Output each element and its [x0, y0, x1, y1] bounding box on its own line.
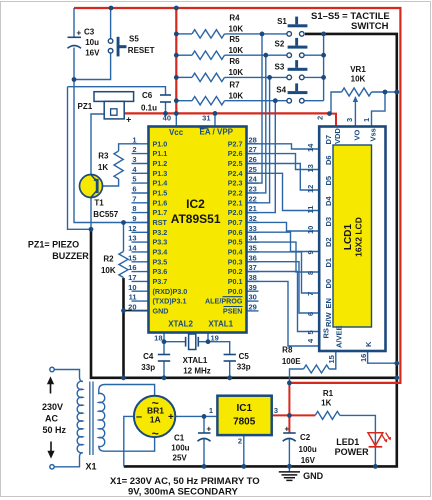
svg-text:P2.7: P2.7	[228, 139, 243, 148]
svg-text:POWER: POWER	[335, 447, 370, 457]
svg-text:AT89S51: AT89S51	[171, 212, 221, 226]
svg-text:S4: S4	[276, 85, 286, 94]
svg-text:D7: D7	[324, 135, 333, 145]
svg-text:P1.2: P1.2	[153, 159, 168, 168]
svg-text:14: 14	[128, 243, 137, 252]
svg-text:15: 15	[128, 253, 136, 262]
svg-text:100E: 100E	[282, 357, 301, 366]
svg-text:37: 37	[249, 263, 257, 272]
svg-text:P0.6: P0.6	[228, 228, 243, 237]
svg-text:10: 10	[306, 226, 315, 234]
svg-text:R7: R7	[229, 80, 240, 89]
svg-text:P1.0: P1.0	[153, 139, 168, 148]
svg-text:R3: R3	[98, 152, 109, 161]
svg-text:(TXD)P3.1: (TXD)P3.1	[153, 297, 187, 306]
svg-text:23: 23	[249, 184, 257, 193]
svg-text:100u: 100u	[171, 444, 189, 453]
svg-text:100u: 100u	[299, 445, 317, 454]
svg-text:2: 2	[238, 437, 242, 446]
svg-text:D6: D6	[324, 155, 333, 165]
svg-text:16: 16	[128, 263, 136, 272]
svg-text:C6: C6	[142, 91, 153, 100]
svg-text:1K: 1K	[98, 163, 108, 172]
svg-text:11: 11	[129, 293, 137, 302]
svg-text:X1: X1	[86, 462, 97, 472]
svg-text:P0.4: P0.4	[228, 248, 243, 257]
svg-text:BC557: BC557	[93, 210, 118, 219]
svg-text:20: 20	[128, 302, 136, 311]
svg-text:5: 5	[132, 175, 136, 184]
svg-text:1: 1	[132, 135, 136, 144]
svg-text:XTAL1: XTAL1	[208, 320, 233, 329]
svg-text:~: ~	[152, 427, 159, 441]
svg-text:C3: C3	[84, 28, 95, 37]
svg-text:16V: 16V	[301, 456, 316, 465]
svg-text:0.1u: 0.1u	[141, 104, 157, 113]
svg-text:P2.6: P2.6	[228, 149, 243, 158]
svg-text:P1.4: P1.4	[153, 179, 168, 188]
svg-text:10K: 10K	[228, 46, 243, 55]
svg-text:+: +	[285, 425, 290, 434]
svg-text:1: 1	[362, 118, 371, 122]
svg-text:R1: R1	[323, 389, 334, 398]
svg-text:5: 5	[306, 330, 315, 334]
svg-text:VDD: VDD	[333, 128, 342, 144]
svg-text:C4: C4	[143, 352, 154, 361]
svg-text:16V: 16V	[85, 49, 100, 58]
svg-text:BUZZER: BUZZER	[52, 251, 89, 261]
svg-text:R5: R5	[229, 35, 240, 44]
svg-text:EA / VPP: EA / VPP	[200, 128, 234, 137]
svg-text:D3: D3	[324, 217, 333, 227]
svg-text:15: 15	[327, 355, 336, 363]
svg-text:P3.2: P3.2	[153, 228, 168, 237]
svg-text:8: 8	[132, 204, 136, 213]
svg-text:P0.3: P0.3	[228, 257, 243, 266]
svg-text:T1: T1	[94, 199, 104, 208]
svg-text:36: 36	[249, 253, 257, 262]
svg-text:R4: R4	[229, 14, 240, 23]
svg-text:P3.7: P3.7	[153, 277, 168, 286]
svg-text:11: 11	[306, 206, 315, 214]
svg-text:S5: S5	[129, 35, 139, 44]
svg-text:32: 32	[249, 214, 257, 223]
svg-text:P3.3: P3.3	[153, 238, 168, 247]
svg-text:12: 12	[306, 185, 315, 193]
svg-text:P3.4: P3.4	[153, 248, 168, 257]
svg-text:21: 21	[249, 204, 257, 213]
svg-text:9: 9	[306, 250, 315, 254]
svg-text:P2.1: P2.1	[228, 198, 243, 207]
svg-text:13: 13	[306, 164, 315, 172]
svg-text:2: 2	[316, 116, 325, 120]
svg-text:6: 6	[306, 312, 315, 316]
svg-text:50 Hz: 50 Hz	[43, 425, 67, 435]
svg-text:7: 7	[306, 292, 315, 296]
svg-text:31: 31	[202, 113, 210, 122]
svg-text:R/W: R/W	[324, 312, 333, 328]
svg-text:R8: R8	[282, 346, 293, 355]
svg-text:RS: RS	[322, 328, 331, 338]
svg-text:EN: EN	[324, 298, 333, 308]
svg-text:6: 6	[132, 184, 136, 193]
svg-text:17: 17	[128, 273, 136, 282]
svg-text:P2.0: P2.0	[228, 208, 243, 217]
svg-text:3: 3	[345, 118, 354, 122]
svg-text:P0.1: P0.1	[228, 277, 243, 286]
svg-text:P0.2: P0.2	[228, 267, 243, 276]
svg-text:PSEN: PSEN	[223, 307, 243, 316]
svg-text:D2: D2	[324, 237, 333, 247]
svg-text:A/VEE: A/VEE	[335, 325, 344, 348]
svg-text:Vss: Vss	[368, 128, 377, 141]
svg-text:P3.6: P3.6	[153, 267, 168, 276]
svg-text:(RXD)P3.0: (RXD)P3.0	[153, 287, 188, 296]
svg-text:XTAL1: XTAL1	[183, 356, 208, 365]
svg-text:C2: C2	[300, 433, 311, 442]
svg-text:10K: 10K	[228, 25, 243, 34]
svg-text:XTAL2: XTAL2	[168, 320, 193, 329]
svg-text:10K: 10K	[228, 68, 243, 77]
svg-text:7: 7	[132, 194, 136, 203]
svg-text:Vcc: Vcc	[169, 128, 184, 137]
svg-text:34: 34	[249, 234, 258, 243]
svg-text:PZ1: PZ1	[78, 102, 93, 111]
svg-text:16: 16	[359, 354, 368, 362]
svg-text:19: 19	[211, 333, 219, 342]
svg-text:RST: RST	[153, 218, 168, 227]
svg-text:GND: GND	[153, 307, 169, 316]
svg-text:P0.0: P0.0	[228, 287, 243, 296]
svg-text:+: +	[168, 412, 174, 423]
svg-text:X1= 230V AC, 50 Hz PRIMARY TO: X1= 230V AC, 50 Hz PRIMARY TO	[110, 476, 260, 487]
svg-text:25: 25	[249, 165, 257, 174]
svg-text:LED1: LED1	[336, 437, 359, 447]
svg-text:1A: 1A	[150, 414, 161, 424]
svg-text:P2.3: P2.3	[228, 179, 243, 188]
svg-text:3: 3	[132, 155, 136, 164]
svg-text:24: 24	[249, 175, 258, 184]
svg-text:10K: 10K	[351, 74, 366, 83]
svg-text:C1: C1	[174, 434, 185, 443]
svg-text:7805: 7805	[233, 417, 256, 428]
svg-text:28: 28	[249, 135, 257, 144]
svg-text:+: +	[126, 115, 131, 125]
svg-text:9: 9	[132, 214, 136, 223]
svg-text:10K: 10K	[101, 266, 116, 275]
svg-text:+: +	[77, 29, 82, 38]
svg-text:+: +	[207, 425, 212, 434]
svg-text:C5: C5	[239, 352, 250, 361]
svg-text:GND: GND	[303, 471, 324, 481]
svg-text:P3.5: P3.5	[153, 257, 168, 266]
svg-text:P1.7: P1.7	[153, 208, 168, 217]
svg-text:RESET: RESET	[128, 46, 155, 55]
svg-text:AC: AC	[45, 414, 58, 424]
svg-text:1K: 1K	[321, 399, 331, 408]
svg-text:P2.5: P2.5	[228, 159, 243, 168]
svg-text:18: 18	[154, 333, 162, 342]
svg-text:25V: 25V	[173, 453, 188, 462]
svg-text:12 MHz: 12 MHz	[183, 366, 211, 375]
svg-text:P1.6: P1.6	[153, 198, 168, 207]
svg-text:16X2 LCD: 16X2 LCD	[354, 217, 364, 257]
svg-text:SWITCH: SWITCH	[351, 21, 389, 32]
svg-text:10: 10	[128, 283, 136, 292]
svg-text:40: 40	[163, 114, 171, 123]
svg-text:P0.5: P0.5	[228, 238, 243, 247]
svg-text:8: 8	[306, 271, 315, 275]
svg-text:S1: S1	[277, 17, 287, 26]
svg-text:35: 35	[249, 243, 257, 252]
svg-text:K: K	[364, 341, 373, 347]
svg-text:2: 2	[132, 145, 136, 154]
svg-text:1: 1	[209, 406, 213, 415]
svg-text:26: 26	[249, 155, 257, 164]
svg-text:R2: R2	[103, 255, 114, 264]
svg-text:13: 13	[128, 234, 136, 243]
svg-text:ALE/PROG: ALE/PROG	[205, 297, 243, 306]
svg-text:P1.5: P1.5	[153, 189, 168, 198]
svg-text:R6: R6	[229, 57, 240, 66]
svg-text:P1.3: P1.3	[153, 169, 168, 178]
svg-text:VR1: VR1	[350, 65, 366, 74]
svg-text:14: 14	[306, 143, 315, 152]
svg-text:230V: 230V	[42, 402, 63, 412]
svg-text:D1: D1	[324, 258, 333, 268]
svg-text:D0: D0	[324, 279, 333, 289]
svg-text:10u: 10u	[85, 38, 99, 47]
svg-text:D5: D5	[324, 176, 333, 186]
svg-text:33p: 33p	[141, 363, 155, 372]
svg-text:–: –	[136, 411, 142, 423]
svg-text:P1.1: P1.1	[153, 149, 168, 158]
svg-text:33p: 33p	[237, 363, 251, 372]
svg-text:33: 33	[249, 224, 257, 233]
svg-text:30: 30	[249, 293, 257, 302]
svg-text:IC1: IC1	[237, 403, 253, 414]
svg-text:P2.2: P2.2	[228, 189, 243, 198]
svg-text:P2.4: P2.4	[228, 169, 243, 178]
svg-text:10K: 10K	[228, 91, 243, 100]
svg-text:S2: S2	[275, 39, 285, 48]
svg-text:P0.7: P0.7	[228, 218, 243, 227]
svg-text:12: 12	[128, 224, 136, 233]
svg-text:IC2: IC2	[186, 197, 205, 211]
svg-text:22: 22	[249, 194, 257, 203]
svg-text:38: 38	[249, 273, 257, 282]
svg-text:39: 39	[249, 283, 257, 292]
svg-text:29: 29	[249, 302, 257, 311]
svg-text:D4: D4	[324, 196, 333, 206]
svg-text:27: 27	[249, 145, 257, 154]
svg-text:9V, 300mA SECONDARY: 9V, 300mA SECONDARY	[128, 487, 238, 498]
svg-text:3: 3	[274, 406, 278, 415]
svg-text:PZ1= PIEZO: PZ1= PIEZO	[28, 239, 79, 249]
svg-text:S3: S3	[275, 62, 285, 71]
svg-text:VO: VO	[353, 129, 362, 140]
